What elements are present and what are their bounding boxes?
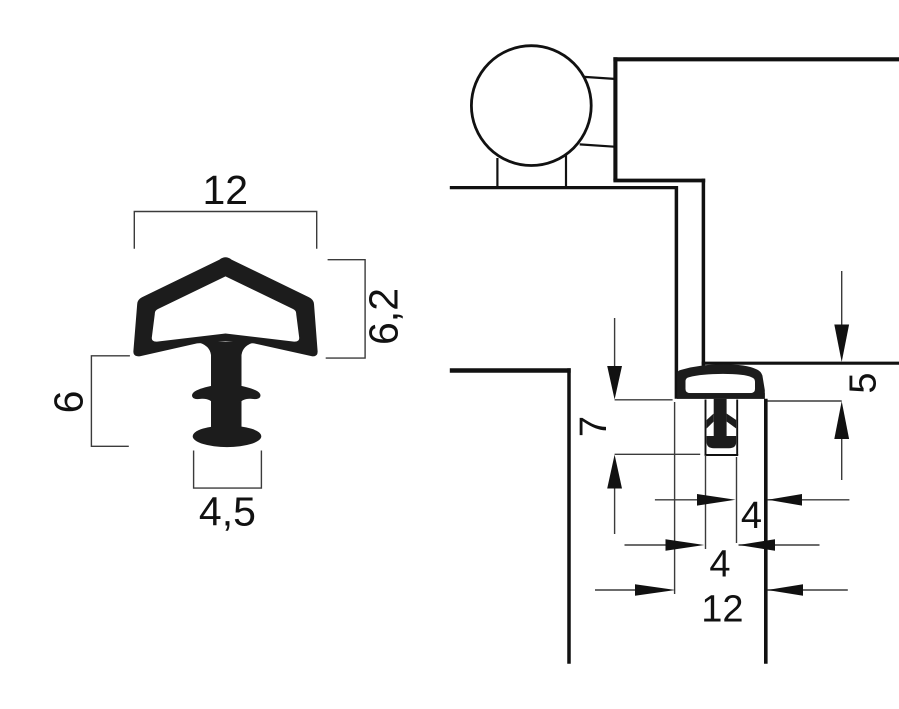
roller circle bbox=[471, 46, 591, 166]
frame top surface bbox=[450, 186, 676, 189]
frame right edge bbox=[764, 399, 768, 664]
sash left edge bbox=[613, 57, 617, 180]
dim 5 vertical line lower bbox=[841, 438, 843, 480]
arrow row2 right-pointing bbox=[666, 539, 705, 551]
svg-text:4,5: 4,5 bbox=[199, 488, 256, 534]
dim 5 line at frame surface level bbox=[768, 400, 842, 402]
arrow row3 right-pointing bbox=[635, 584, 676, 596]
groove bottom bbox=[705, 454, 739, 456]
svg-text:5: 5 bbox=[843, 372, 885, 393]
seal stem bbox=[197, 342, 256, 430]
dim 7 vertical line upper bbox=[614, 318, 616, 366]
dim row3 right line bbox=[768, 589, 848, 591]
dim bracket 12 (top) bbox=[134, 212, 316, 249]
door leaf surface bbox=[450, 368, 571, 372]
dim row3 left line bbox=[595, 589, 637, 591]
groove right wall bbox=[736, 400, 738, 456]
dim 7 line at groove bottom bbox=[615, 453, 701, 455]
ext line groove left bbox=[705, 455, 707, 549]
svg-text:4: 4 bbox=[741, 495, 762, 537]
sash step horizontal bbox=[613, 179, 705, 183]
svg-text:12: 12 bbox=[701, 589, 743, 631]
pedestal right line bbox=[565, 155, 567, 186]
arrow 5 down bbox=[834, 325, 849, 363]
compressed seal foot bbox=[707, 436, 737, 448]
arrow row1 left-pointing bbox=[768, 494, 802, 506]
compressed seal bottom band bbox=[677, 393, 765, 399]
dim 5 vertical line upper bbox=[841, 271, 843, 325]
dim 7 line at frame surface bbox=[615, 399, 673, 401]
svg-text:6,2: 6,2 bbox=[361, 288, 407, 345]
sash step vertical bbox=[702, 179, 706, 367]
arrow 5 up bbox=[834, 401, 849, 439]
groove left wall bbox=[705, 400, 707, 456]
arrow row3 left-pointing bbox=[767, 584, 803, 596]
dim 7 vertical line lower bbox=[614, 488, 616, 534]
sash top edge bbox=[613, 57, 899, 61]
compressed seal barbs bbox=[707, 414, 714, 429]
dim bracket 6 (left) bbox=[91, 356, 129, 447]
seal foot bbox=[193, 426, 262, 448]
dim row1 left line bbox=[655, 499, 700, 501]
dim bracket 6,2 (right) bbox=[326, 260, 365, 358]
roller connector lower bbox=[580, 144, 615, 146]
ext line groove right bbox=[736, 457, 738, 543]
arrow 7 up bbox=[607, 455, 622, 489]
compressed seal roof bbox=[677, 364, 765, 399]
door leaf right edge bbox=[567, 368, 571, 664]
ext line seal left edge bbox=[674, 402, 676, 594]
compressed seal stem bbox=[714, 399, 727, 440]
frame rebate vertical bbox=[675, 186, 679, 399]
seal roof (hollow pentagon) bbox=[133, 257, 317, 356]
dim bracket 4,5 (bottom) bbox=[194, 451, 262, 489]
svg-text:4: 4 bbox=[709, 543, 730, 585]
svg-text:12: 12 bbox=[202, 167, 248, 213]
roller connector upper bbox=[584, 77, 614, 79]
dim row2 left line bbox=[625, 544, 669, 546]
arrow row2 left-pointing bbox=[739, 539, 775, 551]
pedestal left line bbox=[496, 158, 498, 186]
arrow 7 down bbox=[607, 366, 622, 400]
svg-text:6: 6 bbox=[45, 391, 91, 414]
svg-text:7: 7 bbox=[573, 416, 615, 437]
arrow row1 right-pointing bbox=[697, 494, 736, 506]
dim row2 right line bbox=[739, 544, 820, 546]
dim row1 right line bbox=[768, 499, 850, 501]
sash bottom surface bbox=[702, 362, 899, 365]
seal barbs (mid anchoring wings) bbox=[192, 385, 260, 405]
